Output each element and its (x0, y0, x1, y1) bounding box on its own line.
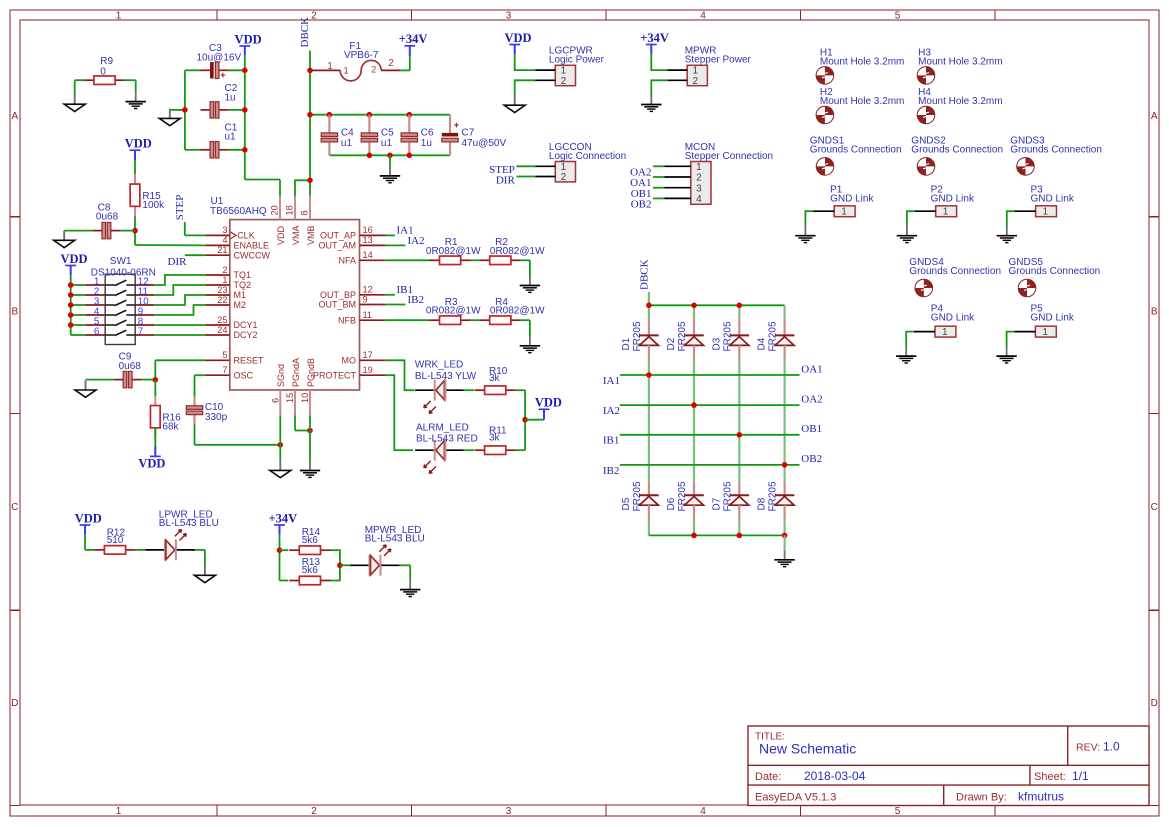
svg-text:19: 19 (363, 365, 373, 375)
net label IB2 (408, 294, 425, 306)
svg-text:1: 1 (327, 61, 333, 72)
wire (653, 187, 665, 189)
svg-text:10: 10 (300, 393, 310, 403)
wire (154, 285, 205, 295)
resistor R4 (480, 297, 545, 325)
svg-text:14: 14 (363, 250, 373, 260)
svg-text:STEP: STEP (174, 195, 186, 221)
svg-text:Grounds Connection: Grounds Connection (810, 145, 902, 156)
junction (782, 462, 788, 468)
wire (154, 305, 205, 315)
title block (748, 726, 1149, 806)
svg-text:D3: D3 (711, 337, 722, 350)
wire (907, 211, 915, 226)
svg-text:A: A (1151, 111, 1158, 122)
connector P4 (GND Link) (914, 303, 975, 338)
capacitor C10 (186, 396, 227, 424)
power flag VDD (125, 137, 152, 160)
svg-text:OUT_BP: OUT_BP (320, 290, 356, 300)
resistor R9 (84, 56, 125, 84)
junction (407, 112, 413, 118)
LED MPWR_LED (350, 525, 425, 576)
junction (782, 533, 788, 539)
svg-text:Mount Hole 3.2mm: Mount Hole 3.2mm (820, 96, 904, 107)
wire DBCK (648, 292, 650, 305)
svg-text:EasyEDA V5.1.3: EasyEDA V5.1.3 (755, 792, 836, 804)
wire (648, 305, 650, 318)
wire (125, 80, 136, 92)
svg-text:5k6: 5k6 (302, 535, 319, 546)
junction (646, 372, 652, 378)
net label IB1 (397, 284, 414, 296)
svg-text:B: B (1151, 307, 1158, 318)
svg-text:New Schematic: New Schematic (759, 741, 856, 757)
svg-text:1: 1 (841, 207, 847, 218)
svg-text:GND Link: GND Link (1031, 194, 1075, 205)
wire (385, 234, 394, 236)
ground (997, 226, 1017, 242)
connector MPWR (667, 46, 751, 87)
svg-text:FR205: FR205 (722, 321, 733, 351)
connector P3 (GND Link) (1015, 185, 1075, 218)
wire (400, 55, 410, 70)
svg-text:7: 7 (138, 327, 143, 338)
svg-text:NFB: NFB (338, 315, 356, 325)
svg-text:IB2: IB2 (408, 294, 425, 306)
wire (170, 109, 245, 111)
capacitor C8 (92, 202, 120, 238)
svg-text:Stepper Connection: Stepper Connection (685, 151, 773, 162)
diode D4 (FR205) (757, 319, 795, 359)
svg-text:C6: C6 (421, 128, 434, 139)
svg-text:OUT_AM: OUT_AM (318, 241, 356, 251)
svg-text:11: 11 (363, 310, 373, 320)
resistor R16 (150, 395, 181, 438)
net label DBCK (638, 259, 650, 290)
diode D2 (FR205) (666, 319, 704, 359)
svg-text:7: 7 (222, 365, 227, 375)
wire (906, 332, 914, 347)
net label STEP (489, 164, 515, 176)
wire (185, 222, 206, 235)
svg-text:OB2: OB2 (801, 453, 822, 465)
svg-text:330p: 330p (205, 412, 228, 423)
resistor R11 (475, 425, 516, 454)
wire (154, 428, 156, 449)
svg-text:2: 2 (561, 76, 567, 87)
svg-text:1: 1 (1042, 327, 1048, 338)
svg-text:OB2: OB2 (631, 199, 652, 211)
wire (464, 389, 475, 391)
svg-text:Grounds Connection: Grounds Connection (1009, 266, 1101, 277)
svg-text:DBCK: DBCK (299, 17, 311, 48)
wire (471, 259, 480, 261)
svg-text:0R082@1W: 0R082@1W (426, 306, 481, 317)
wire (279, 416, 281, 461)
svg-text:3: 3 (222, 225, 227, 235)
ground (126, 92, 146, 108)
svg-text:Stepper Power: Stepper Power (685, 55, 752, 66)
wire (154, 275, 205, 285)
wire (389, 155, 391, 166)
junction (68, 302, 74, 308)
ground (641, 95, 661, 111)
svg-text:D: D (11, 698, 18, 709)
svg-text:PGndB: PGndB (306, 358, 316, 387)
wire (195, 375, 206, 403)
wire (783, 535, 785, 550)
svg-text:1: 1 (943, 207, 949, 218)
wire (86, 379, 156, 381)
wire (651, 80, 667, 95)
wire DBCK (309, 51, 311, 198)
wire (693, 359, 695, 482)
connector P1 (GND Link) (813, 185, 874, 218)
svg-text:Mount Hole 3.2mm: Mount Hole 3.2mm (820, 57, 904, 68)
svg-text:DS1040-06RN: DS1040-06RN (91, 267, 156, 278)
svg-text:2: 2 (311, 10, 317, 21)
wire (693, 305, 695, 318)
svg-text:510: 510 (107, 535, 124, 546)
grounds connection GNDS1 (810, 136, 902, 176)
wire (71, 334, 86, 336)
svg-text:NFA: NFA (338, 256, 356, 266)
diode D5 (FR205) (621, 481, 659, 518)
svg-text:1: 1 (116, 806, 122, 817)
wire (1007, 211, 1015, 226)
svg-text:DCY2: DCY2 (234, 330, 258, 340)
junction (68, 312, 74, 318)
net label DBCK (299, 17, 311, 48)
svg-text:22: 22 (217, 295, 227, 305)
svg-text:D2: D2 (666, 337, 677, 350)
svg-text:4: 4 (700, 10, 706, 21)
svg-text:1.0: 1.0 (1103, 740, 1120, 754)
junction (242, 68, 248, 74)
svg-text:2018-03-04: 2018-03-04 (804, 769, 866, 783)
svg-text:8: 8 (299, 210, 309, 215)
svg-text:Logic Power: Logic Power (549, 55, 605, 66)
wire (738, 359, 740, 482)
ground (54, 231, 75, 248)
ground (380, 167, 400, 183)
ground (64, 94, 85, 111)
power flag VDD (75, 511, 102, 534)
junction (407, 153, 413, 159)
svg-text:DIR: DIR (168, 256, 188, 268)
svg-text:1u: 1u (225, 92, 236, 103)
junction (522, 417, 528, 423)
ground (194, 566, 215, 583)
connector LGCCON (536, 142, 627, 183)
wire (385, 259, 430, 261)
svg-text:1: 1 (942, 327, 948, 338)
svg-text:OUT_AP: OUT_AP (320, 231, 356, 241)
wire (516, 449, 525, 451)
svg-text:2: 2 (388, 58, 394, 69)
svg-text:D8: D8 (757, 497, 768, 510)
wire (385, 244, 405, 246)
power flag +34V (268, 511, 297, 534)
svg-text:RESET: RESET (234, 356, 265, 366)
svg-text:M1: M1 (234, 290, 247, 300)
svg-text:GND Link: GND Link (830, 194, 874, 205)
net label OA2 (630, 167, 651, 179)
wire row IA2 (620, 404, 800, 406)
fuse F1 (310, 41, 400, 81)
switch SW1 (86, 256, 156, 344)
junction (737, 432, 743, 438)
svg-text:OB1: OB1 (801, 423, 822, 435)
svg-text:Date:: Date: (755, 771, 781, 783)
ground (159, 109, 180, 126)
wire (70, 275, 72, 335)
svg-text:+: + (220, 70, 226, 81)
LED LPWR_LED (146, 509, 219, 560)
wire (75, 80, 84, 95)
ground (400, 580, 420, 596)
wire (738, 519, 740, 536)
wire (71, 284, 86, 286)
svg-text:ENABLE: ENABLE (234, 241, 270, 251)
connector LGCPWR (536, 46, 605, 87)
ground (75, 380, 96, 397)
svg-text:Sheet:: Sheet: (1034, 771, 1066, 783)
net label DIR (168, 256, 188, 268)
wire (154, 324, 205, 326)
svg-text:FR205: FR205 (677, 321, 688, 351)
svg-text:VDD: VDD (235, 32, 262, 46)
svg-text:D6: D6 (666, 497, 677, 510)
wire bus bottom (329, 115, 450, 156)
wire (525, 419, 544, 421)
svg-text:9: 9 (363, 294, 368, 304)
diode D6 (FR205) (666, 481, 704, 518)
wire (85, 535, 94, 550)
resistor R10 (475, 366, 516, 395)
svg-text:BL-L543 RED: BL-L543 RED (416, 434, 478, 445)
net label IA1 (397, 225, 414, 237)
svg-text:DIR: DIR (496, 174, 516, 186)
svg-text:A: A (11, 111, 18, 122)
svg-text:2: 2 (693, 76, 699, 87)
wire VDD rail (245, 56, 280, 180)
svg-text:2: 2 (561, 172, 567, 183)
junction (242, 107, 248, 113)
net label OB1 (801, 423, 822, 435)
wire (653, 197, 665, 199)
power flag +34V (640, 31, 669, 54)
svg-text:0R082@1W: 0R082@1W (490, 306, 545, 317)
wire (295, 416, 310, 431)
svg-text:VMB: VMB (306, 225, 316, 245)
svg-text:OSC: OSC (234, 370, 254, 380)
svg-text:3: 3 (506, 806, 512, 817)
wire (738, 305, 740, 318)
junction (68, 282, 74, 288)
mount hole H2 (816, 87, 904, 124)
net label IA1 (603, 375, 620, 387)
svg-text:IA2: IA2 (408, 235, 425, 247)
svg-text:17: 17 (363, 350, 373, 360)
grounds connection GNDS3 (1010, 136, 1102, 176)
wire (521, 260, 530, 276)
junction (68, 322, 74, 328)
wire (185, 254, 206, 256)
junction (278, 442, 284, 448)
svg-text:1: 1 (343, 66, 348, 77)
svg-text:2: 2 (311, 806, 317, 817)
connector P5 (GND Link) (1014, 303, 1074, 338)
svg-text:M2: M2 (234, 300, 247, 310)
wire (385, 375, 413, 450)
svg-text:0: 0 (100, 67, 106, 78)
ground (300, 461, 320, 477)
wire (517, 165, 536, 167)
power flag VDD (535, 396, 562, 420)
wire row IA1 (620, 374, 800, 376)
svg-text:6: 6 (94, 327, 100, 338)
wire (295, 180, 310, 196)
wire (653, 176, 665, 178)
svg-text:1: 1 (1043, 207, 1049, 218)
svg-text:D1: D1 (621, 337, 632, 350)
junction (132, 228, 138, 234)
wire (279, 180, 281, 196)
junction (307, 178, 313, 184)
wire (464, 449, 475, 451)
junction (691, 402, 697, 408)
svg-text:3k: 3k (489, 373, 501, 384)
svg-text:FR205: FR205 (768, 481, 779, 511)
svg-text:SGnd: SGnd (276, 364, 286, 387)
svg-text:IA2: IA2 (603, 405, 620, 417)
resistor R3 (426, 297, 481, 325)
svg-text:13: 13 (363, 235, 373, 245)
connector MCON (665, 142, 774, 205)
svg-text:VDD: VDD (125, 137, 152, 151)
junction (691, 303, 697, 309)
wire (195, 424, 281, 445)
svg-text:3k: 3k (489, 433, 501, 444)
svg-text:GND Link: GND Link (1031, 312, 1075, 323)
junction (307, 68, 313, 74)
svg-text:VDD: VDD (504, 31, 531, 45)
ground (774, 550, 794, 566)
wire (1007, 332, 1015, 347)
svg-text:IA1: IA1 (603, 375, 620, 387)
net label IA2 (603, 405, 620, 417)
svg-text:PROTECT: PROTECT (313, 370, 357, 380)
junction (307, 428, 313, 434)
svg-text:Grounds Connection: Grounds Connection (909, 266, 1001, 277)
net label OA1 (630, 177, 651, 189)
svg-text:Drawn By:: Drawn By: (956, 792, 1007, 804)
svg-text:FR205: FR205 (722, 481, 733, 511)
svg-text:B: B (11, 307, 18, 318)
net label OB1 (631, 188, 652, 200)
svg-text:2: 2 (222, 265, 227, 275)
svg-text:0R082@1W: 0R082@1W (490, 246, 545, 257)
svg-text:4: 4 (222, 235, 227, 245)
capacitor C4 (321, 115, 354, 156)
wire (309, 416, 311, 462)
resistor R15 (130, 174, 165, 217)
net label IB2 (603, 465, 620, 477)
svg-text:C: C (1151, 502, 1158, 513)
junction (153, 377, 159, 383)
svg-text:TQ1: TQ1 (234, 270, 252, 280)
wire (783, 519, 785, 536)
svg-text:16: 16 (363, 225, 373, 235)
junction (691, 533, 697, 539)
svg-text:C4: C4 (341, 128, 354, 139)
capacitor C6 (401, 115, 434, 156)
svg-text:+: + (454, 120, 460, 131)
wire (516, 390, 525, 450)
wire (385, 319, 430, 321)
svg-text:u1: u1 (341, 138, 353, 149)
wire (783, 305, 785, 318)
ground (270, 461, 291, 478)
wire (154, 295, 205, 305)
wire (185, 70, 201, 150)
svg-text:0u68: 0u68 (96, 212, 119, 223)
svg-text:+34V: +34V (268, 511, 297, 525)
diode D7 (FR205) (711, 481, 749, 518)
svg-text:3: 3 (696, 183, 702, 194)
junction (68, 292, 74, 298)
diode D1 (FR205) (621, 319, 659, 359)
svg-text:4: 4 (700, 806, 706, 817)
wire (331, 550, 340, 565)
junction (737, 303, 743, 309)
svg-text:IB2: IB2 (603, 465, 620, 477)
capacitor C7 (442, 115, 507, 156)
svg-text:10u@16V: 10u@16V (197, 52, 242, 63)
wire bus bottom (649, 534, 785, 536)
wire (805, 211, 813, 226)
mount hole H3 (917, 48, 1002, 85)
svg-text:C7: C7 (462, 128, 475, 139)
svg-text:BL-L543 YLW: BL-L543 YLW (415, 371, 477, 382)
svg-text:u1: u1 (225, 132, 237, 143)
svg-text:D5: D5 (621, 497, 632, 510)
svg-text:1/1: 1/1 (1072, 769, 1089, 783)
wire (385, 304, 405, 306)
ground (897, 226, 917, 242)
net label OA2 (801, 393, 822, 405)
net label OA1 (801, 363, 822, 375)
svg-text:GND Link: GND Link (931, 312, 975, 323)
svg-text:Grounds Connection: Grounds Connection (1010, 145, 1102, 156)
wire (651, 54, 667, 70)
diode D8 (FR205) (757, 481, 795, 518)
ground (520, 336, 540, 352)
wire (521, 320, 530, 336)
svg-text:WRK_LED: WRK_LED (415, 360, 463, 371)
ground (996, 347, 1016, 363)
svg-text:1: 1 (222, 275, 227, 285)
capacitor C3 (197, 43, 242, 81)
svg-text:5k6: 5k6 (302, 565, 319, 576)
svg-text:OA1: OA1 (801, 363, 822, 375)
svg-text:15: 15 (285, 393, 295, 403)
wire (71, 304, 86, 306)
capacitor C9 (114, 352, 142, 388)
junction (307, 112, 313, 118)
wire bus top (649, 304, 785, 306)
